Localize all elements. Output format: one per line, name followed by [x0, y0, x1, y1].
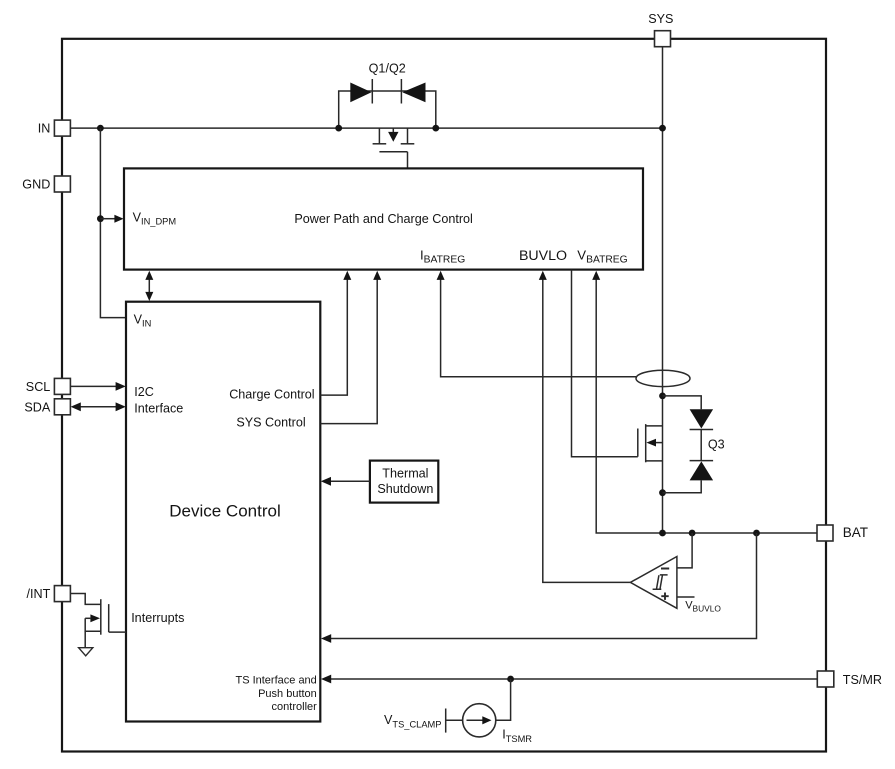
svg-text:BUVLO: BUVLO [519, 248, 567, 264]
node Q2 right junction [432, 125, 439, 132]
svg-text:Interrupts: Interrupts [131, 611, 184, 625]
svg-text:I2C: I2C [134, 385, 154, 399]
transistor Q3 [638, 424, 663, 462]
wire SCL arrow [70, 385, 117, 387]
wire BUVLO from comparator to Power Path [543, 278, 631, 582]
node BAT comparator junction [689, 530, 696, 537]
diode pair Q1/Q2 [339, 62, 436, 129]
svg-text:Q3: Q3 [708, 438, 725, 452]
svg-text:/INT: /INT [27, 587, 51, 601]
pin SDA [24, 399, 70, 415]
node BAT feedback junction [753, 530, 760, 537]
block Power Path and Charge Control [124, 168, 643, 269]
block Device Control [126, 302, 320, 722]
svg-text:BAT: BAT [843, 525, 868, 540]
wire IN rail [70, 127, 662, 129]
pin TS/MR [817, 671, 882, 687]
node IN-SYS junction [659, 125, 666, 132]
pin SCL [26, 378, 71, 394]
node IN-branch junction [97, 125, 104, 132]
wire VIN branch vertical [100, 128, 126, 318]
wire SDA double arrow [79, 406, 117, 408]
svg-text:Push button: Push button [258, 688, 317, 700]
IC boundary [62, 39, 826, 752]
node Q3 top junction [659, 393, 666, 400]
wire comparator inverting input from BAT [677, 533, 692, 568]
svg-text:TS/MR: TS/MR [843, 673, 882, 687]
node VIN_DPM junction [97, 215, 104, 222]
wire VBATREG to BAT rail [596, 278, 817, 533]
pin SYS [648, 12, 673, 47]
svg-text:SYS: SYS [648, 12, 673, 26]
node SYS-BAT junction [659, 530, 666, 537]
wire Q3 gate drive [572, 270, 638, 457]
wire Charge Control to Power Path [320, 278, 347, 395]
ground [79, 648, 93, 656]
wire Thermal Shutdown arrow into Device Control [329, 480, 370, 482]
wire TS/MR to Device Control [329, 678, 817, 680]
current source ITSMR [384, 679, 532, 744]
wire VIN_DPM arrow into Power Path [100, 218, 115, 220]
svg-text:SCL: SCL [26, 380, 51, 394]
wire bidirectional VIN link between blocks [145, 271, 153, 301]
pin /INT [27, 586, 71, 602]
wire BAT to Device Control [329, 533, 757, 639]
svg-text:IN: IN [38, 122, 51, 136]
svg-text:GND: GND [22, 178, 50, 192]
svg-text:controller: controller [272, 701, 318, 713]
block Thermal Shutdown [370, 461, 438, 503]
svg-text:Device Control: Device Control [169, 502, 281, 521]
node Q1 left junction [335, 125, 342, 132]
svg-text:Interface: Interface [134, 402, 183, 416]
transistor Q1/Q2 pass FET [373, 128, 415, 168]
svg-text:Shutdown: Shutdown [377, 482, 433, 496]
current sense ellipse [636, 370, 690, 386]
op-amp BUVLO comparator [630, 557, 677, 609]
svg-text:Q1/Q2: Q1/Q2 [369, 62, 406, 76]
svg-text:Thermal: Thermal [382, 467, 428, 481]
wire SYS vertical [662, 47, 664, 533]
pin IN [38, 120, 71, 136]
node Q3 bottom junction [659, 489, 666, 496]
diode pair Q3 body diodes [663, 396, 725, 493]
wire IBATREG sense to Power Path [441, 278, 636, 377]
node TS junction [507, 676, 514, 683]
svg-text:SDA: SDA [24, 401, 50, 415]
pin GND [22, 176, 70, 192]
svg-text:TS Interface and: TS Interface and [235, 675, 316, 687]
pin BAT [817, 525, 868, 541]
svg-text:SYS Control: SYS Control [236, 416, 305, 430]
svg-text:Power Path and Charge Control: Power Path and Charge Control [294, 212, 473, 226]
wire comparator plus input stub VBUVLO [677, 596, 695, 598]
transistor interrupt FET [71, 594, 126, 648]
wire SYS Control to Power Path [320, 278, 377, 424]
svg-text:Charge Control: Charge Control [229, 387, 314, 401]
